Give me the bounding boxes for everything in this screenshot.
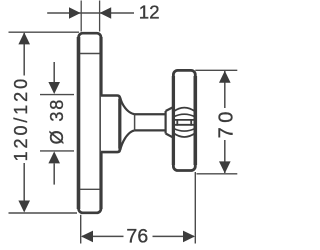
dimension 120/120 line lower segment — [23, 163, 25, 211]
dimension D38 bottom tick — [40, 150, 74, 152]
paddle bottom line — [173, 124, 195, 126]
paddle right edge — [190, 119, 192, 126]
dimension 12 right extension line — [99, 1, 101, 32]
neck bottom line — [135, 129, 166, 131]
svg-text:12: 12 — [139, 2, 160, 23]
dimension D38 top tick — [40, 94, 74, 96]
knob left edge thick — [172, 76, 175, 165]
plate right edge thick — [99, 37, 102, 209]
knob groove inner bottom arc — [173, 128, 195, 131]
dimension D38 top tail — [53, 62, 55, 82]
neck top line — [135, 113, 166, 115]
dimension 70 down arrow — [219, 161, 231, 173]
dimension 76 line left segment — [82, 235, 124, 237]
paddle top line — [173, 119, 195, 121]
svg-text:Ø 38: Ø 38 — [47, 98, 67, 145]
flange right edge thick — [118, 99, 121, 149]
paddle left edge — [176, 119, 178, 126]
dimension 76 line right segment — [153, 235, 195, 237]
dimension 76 right arrow — [183, 231, 195, 243]
dimension D38 down arrow — [48, 82, 60, 94]
plate left edge thick — [77, 37, 81, 209]
dimension 120/120 top extension line — [9, 31, 80, 33]
handle base flange — [101, 96, 120, 153]
collar flare top — [166, 107, 174, 111]
collar flare bottom — [166, 134, 174, 138]
dimension 12 right arrow — [100, 7, 112, 19]
dimension 12 leader line — [47, 12, 134, 14]
knob groove inner top arc — [173, 114, 195, 117]
dimension 76 left extension line — [80, 215, 82, 244]
stem trumpet top curve — [120, 98, 134, 115]
dimension 70 line lower segment — [224, 140, 226, 173]
dimension 70 bottom extension line — [197, 173, 238, 175]
dimension 120/120 up arrow — [18, 32, 30, 44]
dimension D38 bottom tail — [53, 164, 55, 185]
escutcheon plate outline — [79, 33, 101, 213]
stem seam line — [134, 114, 136, 130]
knob groove outer top arc — [173, 108, 195, 112]
dimension 120/120 line upper segment — [23, 33, 25, 76]
svg-text:76: 76 — [126, 226, 148, 248]
dimension 120/120 down arrow — [18, 201, 30, 213]
plate inner seam bottom — [80, 188, 100, 190]
knob collar — [165, 111, 167, 134]
svg-text:70: 70 — [216, 107, 238, 138]
dimension 120/120 bottom extension line — [9, 212, 78, 214]
dimension 76 right extension line — [194, 172, 196, 244]
stem trumpet bottom curve — [120, 130, 134, 150]
knob groove outer bottom arc — [173, 133, 195, 137]
dimension 70 top extension line — [195, 69, 237, 71]
dimension 12 left extension line — [80, 1, 82, 32]
dimension 70 line upper segment — [224, 71, 226, 108]
dimension 76 left arrow — [81, 231, 93, 243]
plate inner seam top — [80, 53, 100, 55]
dimension D38 up arrow — [48, 151, 60, 163]
knob right edge thick — [194, 76, 198, 165]
dimension 70 up arrow — [219, 71, 231, 83]
handle knob outline — [173, 70, 195, 170]
dimension 12 left arrow — [69, 7, 81, 19]
svg-text:120/120: 120/120 — [11, 76, 31, 161]
